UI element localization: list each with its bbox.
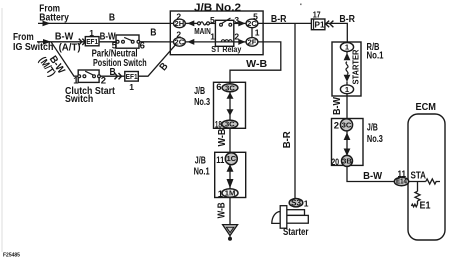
- svg-text:3: 3: [234, 15, 239, 25]
- svg-text:EF1: EF1: [86, 39, 98, 46]
- svg-text:1: 1: [255, 27, 260, 37]
- svg-text:1: 1: [89, 28, 94, 38]
- svg-text:No.1: No.1: [194, 165, 210, 177]
- svg-text:Switch: Switch: [65, 93, 93, 105]
- svg-text:ECM: ECM: [416, 102, 437, 113]
- svg-text:11: 11: [216, 155, 225, 166]
- svg-text:STA: STA: [411, 169, 427, 181]
- svg-text:W-B: W-B: [246, 58, 267, 70]
- svg-text:3C: 3C: [342, 120, 352, 129]
- svg-text:6: 6: [216, 82, 221, 93]
- svg-text:B-R: B-R: [271, 13, 287, 25]
- svg-text:W-B: W-B: [216, 128, 228, 146]
- svg-text:6: 6: [140, 40, 145, 51]
- svg-text:J/B No.2: J/B No.2: [194, 2, 241, 14]
- svg-text:B: B: [109, 11, 116, 23]
- svg-text:B-W: B-W: [331, 97, 343, 115]
- svg-text:EF1: EF1: [126, 74, 138, 81]
- svg-text:5: 5: [210, 15, 215, 25]
- svg-text:S3: S3: [291, 199, 301, 208]
- svg-text:Starter: Starter: [283, 226, 309, 238]
- svg-text:No.1: No.1: [367, 49, 384, 61]
- svg-text:IG Switch: IG Switch: [13, 41, 53, 53]
- svg-text:1M: 1M: [225, 189, 236, 198]
- svg-text:E14: E14: [396, 179, 407, 186]
- svg-text:1C: 1C: [226, 154, 236, 163]
- svg-text:20: 20: [331, 157, 339, 168]
- svg-text:W-B: W-B: [215, 202, 227, 218]
- svg-text:B-W: B-W: [363, 170, 382, 182]
- svg-text:17: 17: [313, 10, 321, 20]
- svg-text:B: B: [110, 66, 117, 78]
- svg-text:2F: 2F: [248, 37, 257, 46]
- svg-text:P1: P1: [315, 19, 325, 29]
- svg-text:Position Switch: Position Switch: [93, 57, 147, 69]
- svg-text:2C: 2C: [247, 19, 257, 28]
- svg-text:5: 5: [112, 40, 118, 51]
- svg-text:Battery: Battery: [39, 12, 69, 24]
- svg-text:F25485: F25485: [3, 253, 20, 259]
- svg-text:2: 2: [101, 76, 106, 87]
- svg-text:3B: 3B: [342, 156, 352, 165]
- svg-text:J/B: J/B: [367, 122, 378, 134]
- svg-text:1: 1: [73, 76, 79, 87]
- svg-text:(A/T): (A/T): [59, 42, 81, 54]
- svg-text:3C: 3C: [225, 83, 235, 92]
- svg-text:18: 18: [215, 120, 222, 131]
- svg-text:1: 1: [218, 189, 224, 200]
- svg-text:No.3: No.3: [194, 96, 210, 108]
- svg-text:B: B: [150, 26, 157, 38]
- svg-text:B-R: B-R: [339, 13, 355, 25]
- svg-text:2C: 2C: [175, 37, 185, 46]
- svg-text:1: 1: [304, 198, 309, 208]
- svg-text:STARTER: STARTER: [352, 49, 361, 84]
- svg-text:B-R: B-R: [281, 131, 293, 148]
- svg-text:2H: 2H: [175, 19, 185, 28]
- svg-text:MAIN: MAIN: [194, 27, 211, 36]
- svg-text:2: 2: [334, 121, 339, 132]
- svg-text:E1: E1: [420, 199, 431, 211]
- svg-text:2: 2: [234, 32, 239, 42]
- svg-text:ST Relay: ST Relay: [211, 45, 241, 54]
- svg-text:1: 1: [210, 32, 215, 42]
- svg-text:3C: 3C: [225, 120, 235, 129]
- svg-text:No.3: No.3: [367, 133, 383, 145]
- svg-text:B-W: B-W: [55, 31, 73, 43]
- svg-text:1: 1: [129, 82, 134, 92]
